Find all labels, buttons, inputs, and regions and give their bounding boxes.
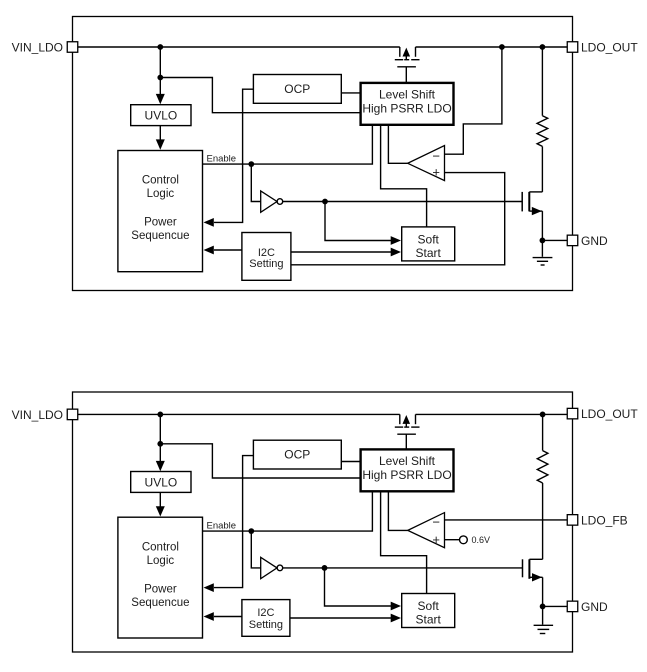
transistor pass FET (PMOS) on VIN rail (395, 47, 420, 83)
wire Enable from Control Logic to Level Shift (bottom) (203, 491, 373, 531)
wire arrow into UVLO (159, 78, 161, 96)
svg-text:OCP: OCP (284, 82, 310, 96)
wire VIN branch to Level Shift supply (bottom) (160, 444, 360, 478)
pin GND (bottom) (567, 601, 578, 612)
block Control Logic / Power Sequence (118, 151, 203, 272)
block Level Shift / High PSRR LDO U1 (361, 83, 454, 125)
pin LDO_OUT (bottom) (567, 408, 578, 419)
wire op-amp inverting input from LDO_OUT rail (445, 47, 502, 154)
wire arrow branch to Soft Start input 1 (325, 202, 393, 241)
wire OCP to Level Shift (bottom) (341, 461, 360, 463)
pin LDO_OUT (567, 42, 578, 53)
ground symbol (bottom) (534, 606, 554, 633)
svg-text:Logic: Logic (147, 555, 175, 567)
wire arrow UVLO to Control Logic (bottom) (159, 492, 161, 507)
wire VIN vertical drop (159, 47, 161, 78)
wire OCP output down to Control Logic arrow (214, 89, 253, 222)
inverter U3 (261, 191, 277, 212)
wire arrow I2C to Soft Start input 2 (291, 251, 393, 253)
wire VIN vertical drop (bottom) (159, 414, 161, 443)
block OCP (bottom) (253, 440, 341, 469)
node junction on Enable wire (bottom) (248, 528, 254, 534)
resistor R1 load (537, 47, 548, 192)
wire VIN rail right segment (bottom) (416, 413, 568, 415)
svg-text:Enable: Enable (207, 521, 237, 532)
svg-text:LDO_OUT: LDO_OUT (581, 407, 638, 421)
svg-text:Control: Control (142, 175, 179, 187)
svg-text:−: − (432, 515, 440, 530)
svg-text:+: + (432, 532, 440, 547)
transistor pass FET (PMOS) on VIN rail (bottom) (395, 414, 420, 449)
svg-text:Setting: Setting (249, 258, 283, 270)
svg-text:Level Shift: Level Shift (379, 87, 436, 101)
block Soft Start (402, 227, 455, 261)
wire Level Shift to Soft Start (bottom) (381, 491, 427, 593)
node junction on inverter output (322, 199, 328, 205)
op-amp U5 (error amp, pointing left, bottom) (408, 513, 445, 548)
svg-text:I2C: I2C (257, 607, 274, 619)
wire op-amp inverting input to LDO_FB (445, 519, 568, 521)
resistor R2 divider (bottom) (537, 414, 548, 559)
svg-text:Start: Start (416, 612, 442, 626)
svg-text:Enable: Enable (207, 154, 237, 165)
block OCP (253, 75, 341, 104)
svg-text:LDO_FB: LDO_FB (581, 513, 628, 527)
node junction on VIN rail at x=160 (157, 44, 163, 50)
node junction at 160,77.5 (157, 75, 163, 81)
block UVLO (131, 105, 191, 126)
svg-text:UVLO: UVLO (145, 109, 178, 123)
svg-text:Logic: Logic (147, 188, 175, 200)
svg-text:−: − (432, 149, 440, 164)
wire VIN rail right segment (416, 46, 568, 48)
svg-text:GND: GND (581, 600, 608, 614)
block Control Logic / Power Sequence (bottom) (118, 517, 203, 638)
svg-text:Power: Power (144, 217, 177, 229)
svg-text:Sequencue: Sequencue (131, 230, 189, 242)
wire inverter output to NMOS gate (bottom) (283, 567, 523, 569)
svg-text:I2C: I2C (258, 247, 275, 259)
op-amp U2 (error amp, pointing left) (408, 146, 445, 181)
wire op-amp output to Level Shift (bottom) (388, 491, 407, 530)
node junction on rail at 542.4 (540, 44, 546, 50)
pin GND (567, 235, 578, 246)
svg-text:VIN_LDO: VIN_LDO (12, 40, 63, 54)
ground symbol (533, 240, 553, 265)
svg-text:Control: Control (142, 542, 179, 554)
node junction on inverter output (bottom) (322, 565, 328, 571)
block I2C Setting (242, 233, 291, 281)
inverter U6 (bottom) (261, 557, 277, 578)
node junction at GND (bottom) (540, 604, 546, 610)
wire Level Shift to Soft Start (381, 125, 427, 227)
svg-text:Power: Power (144, 584, 177, 596)
wire arrow into UVLO (bottom) (159, 444, 161, 463)
node junction on rail at 542.6 (bottom) (540, 412, 546, 418)
wire VIN branch to Level Shift supply (160, 78, 360, 113)
wire OCP output down to Control Logic arrow (bottom) (214, 456, 253, 588)
wire VIN rail left segment (bottom) (78, 413, 400, 415)
svg-text:Start: Start (416, 246, 442, 260)
svg-text:0.6V: 0.6V (472, 535, 491, 545)
outer block boundary (top diagram) (73, 17, 573, 291)
node junction on Enable wire (248, 161, 254, 167)
svg-text:OCP: OCP (284, 448, 310, 462)
node junction on VIN rail at x=160 (bottom) (157, 412, 163, 418)
wire op-amp non-inverting input to 0.6V reference (445, 539, 460, 541)
wire arrow I2C to Soft Start input 2 (bottom) (290, 617, 393, 619)
node junction at 160,443.8 (bottom) (157, 441, 163, 447)
wire inverter input from Enable node (251, 164, 260, 201)
wire arrow branch to Soft Start input 1 (bottom) (325, 568, 393, 606)
svg-text:LDO_OUT: LDO_OUT (581, 40, 638, 54)
svg-text:Setting: Setting (249, 619, 283, 631)
pin VIN_LDO (bottom) (67, 409, 78, 420)
svg-text:Sequencue: Sequencue (131, 597, 189, 609)
pin VIN_LDO (67, 42, 78, 53)
block I2C Setting (bottom) (242, 600, 290, 637)
svg-text:UVLO: UVLO (145, 475, 178, 489)
svg-text:Soft: Soft (418, 232, 440, 246)
wire inverter output to NMOS gate (283, 201, 523, 203)
wire to GND pin (542, 239, 567, 241)
svg-text:Soft: Soft (418, 599, 440, 613)
pin LDO_FB (bottom) (567, 515, 578, 526)
node junction at GND (540, 238, 546, 244)
wire op-amp output to Level Shift (388, 125, 407, 164)
wire arrow I2C to Control Logic (bottom) (214, 616, 242, 618)
svg-text:+: + (432, 165, 440, 180)
block Level Shift / High PSRR LDO U4 (bottom) (361, 449, 454, 491)
svg-text:High PSRR LDO: High PSRR LDO (362, 102, 451, 116)
node junction on rail at 501.9 (499, 44, 505, 50)
transistor Q1 NMOS pulldown (522, 192, 542, 241)
svg-text:Level Shift: Level Shift (379, 454, 436, 468)
transistor Q2 NMOS pulldown (bottom) (523, 559, 543, 606)
wire OCP to Level Shift (341, 92, 360, 94)
wire arrow I2C to Control Logic (214, 249, 242, 251)
svg-text:VIN_LDO: VIN_LDO (12, 408, 63, 422)
node 0.6V reference terminal (460, 536, 468, 544)
svg-text:GND: GND (581, 234, 608, 248)
wire inverter input from Enable node (bottom) (251, 531, 260, 568)
outer block boundary (bottom diagram) (73, 392, 573, 652)
wire arrow UVLO to Control Logic (159, 126, 161, 141)
wire Enable from Control Logic to Level Shift (203, 125, 373, 164)
svg-text:High PSRR LDO: High PSRR LDO (362, 468, 451, 482)
wire VIN rail left segment (78, 46, 400, 48)
block Soft Start (bottom) (402, 594, 455, 628)
wire to GND pin (bottom) (543, 605, 568, 607)
wire op-amp non-inverting input from I2C setting (291, 173, 505, 265)
block UVLO (bottom) (131, 472, 191, 493)
